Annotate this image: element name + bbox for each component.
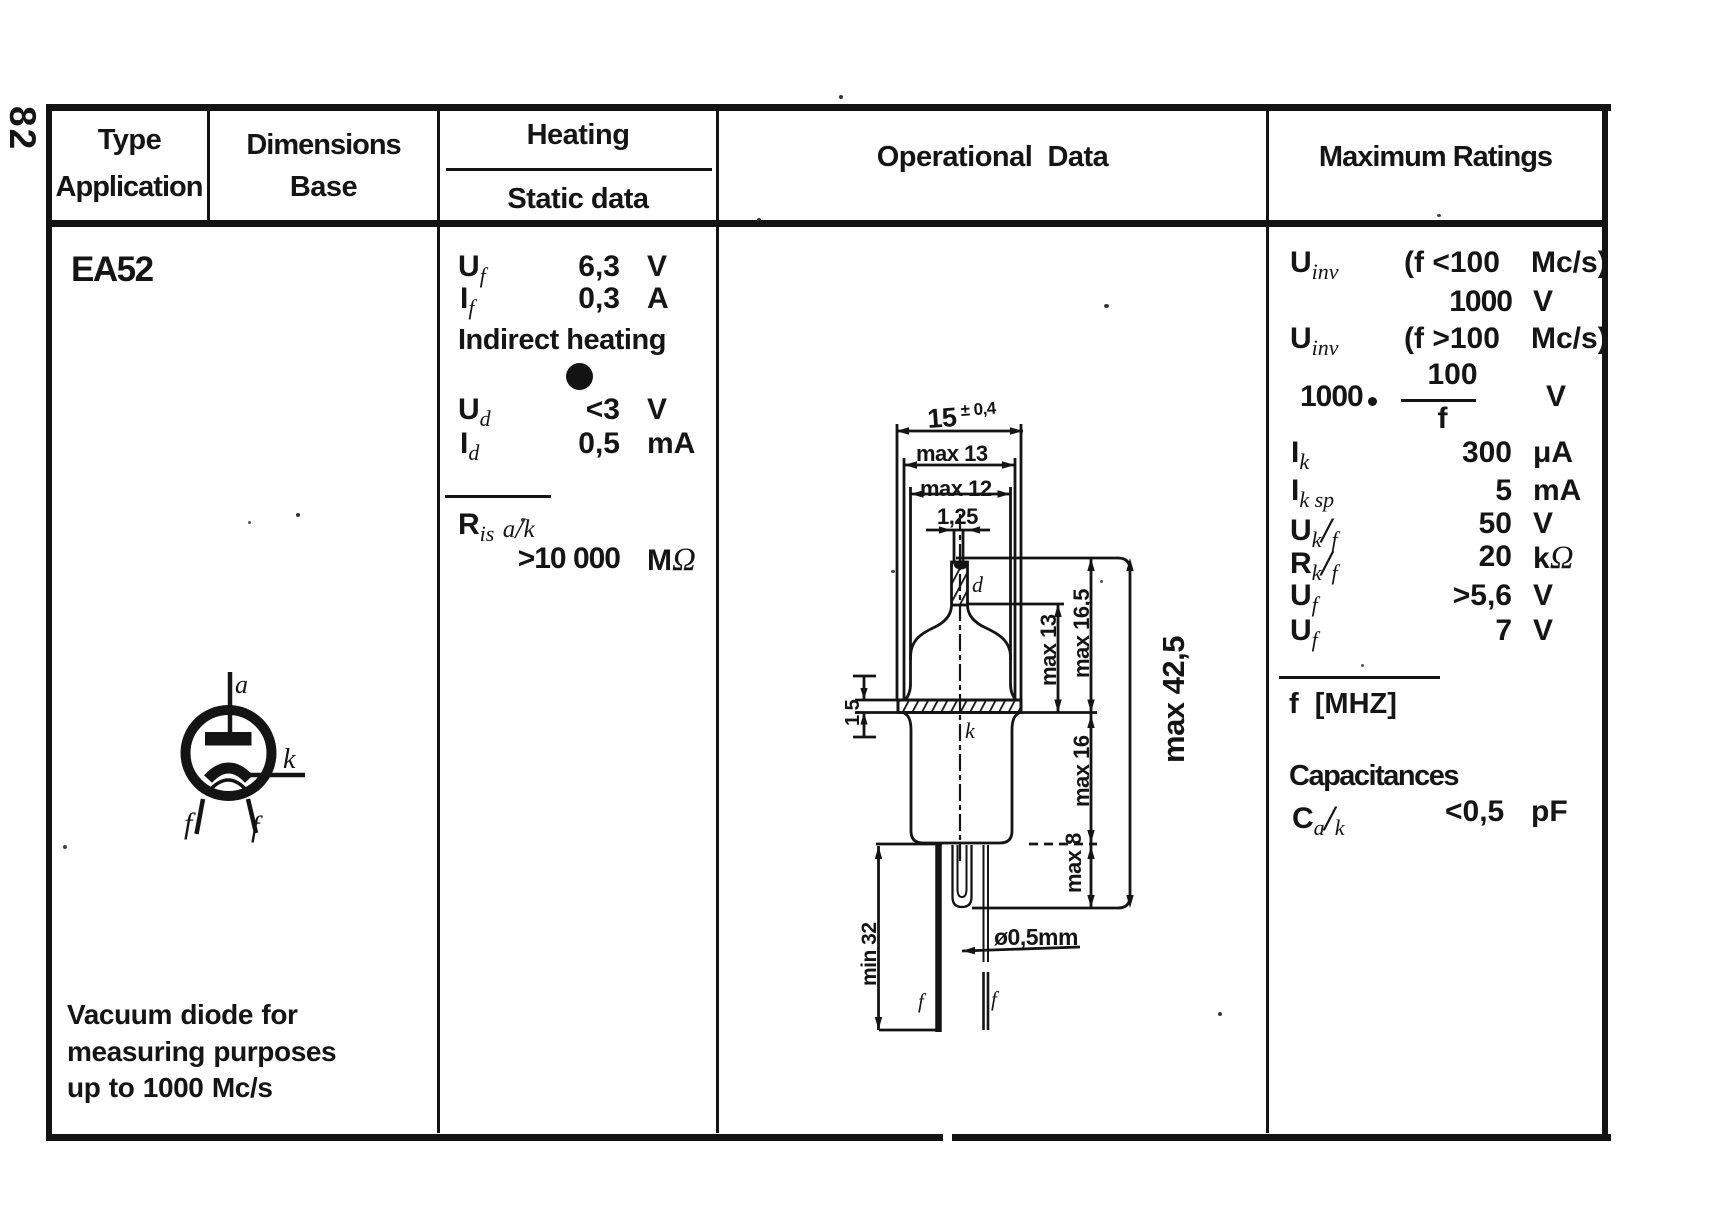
svg-text:a: a bbox=[235, 670, 248, 699]
svg-text:k: k bbox=[965, 718, 976, 743]
svg-text:d: d bbox=[972, 572, 984, 597]
svg-text:max 8: max 8 bbox=[1061, 833, 1086, 893]
svg-text:f: f bbox=[991, 987, 1000, 1011]
svg-text:max 12: max 12 bbox=[920, 476, 992, 501]
svg-text:1,25: 1,25 bbox=[937, 504, 978, 529]
svg-text:k: k bbox=[283, 744, 296, 775]
svg-text:± 0,4: ± 0,4 bbox=[960, 399, 997, 420]
svg-text:min 32: min 32 bbox=[858, 922, 881, 986]
svg-text:max 13: max 13 bbox=[916, 441, 988, 466]
svg-text:f: f bbox=[184, 807, 196, 840]
svg-text:15: 15 bbox=[926, 402, 958, 434]
svg-text:ø0,5mm: ø0,5mm bbox=[994, 924, 1078, 950]
svg-text:max 42,5: max 42,5 bbox=[1156, 636, 1191, 763]
svg-text:max 13: max 13 bbox=[1036, 614, 1061, 686]
svg-text:max 16: max 16 bbox=[1069, 735, 1094, 807]
svg-text:max 16,5: max 16,5 bbox=[1069, 589, 1094, 678]
svg-text:1,5: 1,5 bbox=[842, 699, 864, 726]
svg-text:f: f bbox=[918, 989, 927, 1013]
svg-text:f: f bbox=[251, 810, 263, 843]
